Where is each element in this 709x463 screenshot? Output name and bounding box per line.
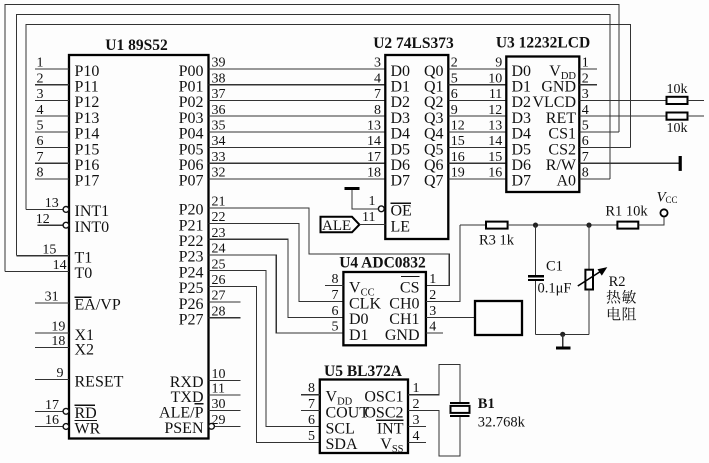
ADC U4 ADC0832 box: [343, 272, 426, 345]
wire bar stem to OE: [352, 190, 378, 209]
svg-text:P02: P02: [179, 94, 204, 111]
svg-text:ALE/P: ALE/P: [159, 404, 204, 421]
svg-text:INT1: INT1: [75, 203, 110, 220]
svg-text:P06: P06: [179, 157, 204, 174]
wire PSEN pin 29 stub: [215, 425, 241, 427]
svg-text:D6: D6: [391, 157, 411, 174]
wire U5 VDD pin8 stub: [301, 394, 320, 396]
svg-text:C1: C1: [546, 258, 563, 274]
svg-text:33: 33: [212, 150, 226, 165]
wire data bus P03 from U1 to U2: [209, 115, 386, 117]
wire data bus P06 from U1 to U2: [209, 162, 386, 164]
svg-text:11: 11: [212, 382, 225, 397]
svg-text:LE: LE: [391, 218, 411, 235]
overline on CS: [401, 275, 420, 277]
svg-text:8: 8: [308, 381, 315, 396]
svg-text:D0: D0: [349, 311, 369, 328]
svg-text:P15: P15: [75, 141, 100, 158]
wire ALE flag to LE pin 11: [359, 224, 385, 226]
svg-text:RET: RET: [546, 110, 576, 127]
wire CS1 pin5 stub to loop: [579, 131, 619, 133]
crystal B1: [450, 402, 470, 404]
wire U1 pin 2 P11 stub: [35, 84, 69, 86]
capacitor C1: [535, 225, 537, 275]
svg-text:19: 19: [451, 166, 465, 181]
svg-text:P05: P05: [179, 141, 204, 158]
svg-text:3: 3: [429, 304, 436, 319]
pin 17 bubble: [63, 408, 69, 414]
wire U1 pin 1 P10 stub: [35, 68, 69, 70]
svg-text:WR: WR: [75, 420, 101, 437]
svg-text:A0: A0: [556, 173, 576, 190]
svg-text:4: 4: [37, 103, 44, 118]
wire GND pin4 stub: [426, 332, 443, 334]
svg-text:R/W: R/W: [546, 157, 577, 174]
svg-text:P21: P21: [179, 217, 204, 234]
wire OSC2 to crystal bottom: [408, 411, 460, 457]
svg-text:3: 3: [37, 87, 44, 102]
svg-text:10: 10: [488, 71, 502, 86]
svg-text:15: 15: [42, 242, 56, 257]
svg-text:VLCD: VLCD: [532, 94, 576, 111]
svg-text:D3: D3: [391, 110, 411, 127]
svg-text:P20: P20: [179, 202, 204, 219]
svg-text:9: 9: [57, 366, 64, 381]
svg-text:8: 8: [37, 166, 44, 181]
svg-text:18: 18: [51, 334, 65, 349]
svg-text:R3 1k: R3 1k: [479, 233, 515, 249]
svg-text:P24: P24: [179, 264, 204, 281]
wire R/W pin7 to terminator: [579, 162, 679, 164]
svg-text:D7: D7: [391, 173, 411, 190]
wire U1 pin 5 P14 stub: [35, 131, 69, 133]
svg-text:P12: P12: [75, 94, 100, 111]
svg-text:GND: GND: [541, 79, 576, 96]
svg-text:19: 19: [51, 320, 65, 335]
wire T0 pin 14: [5, 270, 69, 272]
svg-text:13: 13: [367, 119, 381, 134]
svg-text:Q2: Q2: [424, 94, 444, 111]
wire INT0 pin 12 stub: [38, 224, 64, 226]
svg-text:CH0: CH0: [389, 295, 419, 312]
wire RD pin 17 stub: [35, 410, 63, 412]
svg-text:17: 17: [45, 398, 59, 413]
wire RXD pin 10 stub: [209, 379, 241, 381]
wire INT pin3 stub: [408, 426, 426, 428]
svg-text:10k: 10k: [667, 82, 688, 97]
svg-text:15: 15: [488, 150, 502, 165]
wire R3 to R1: [508, 224, 618, 226]
svg-text:35: 35: [212, 119, 226, 134]
svg-text:P04: P04: [179, 126, 204, 143]
wire U1 pin 3 P12 stub: [35, 99, 69, 101]
wire OSC1 to crystal top: [408, 365, 460, 403]
svg-text:D0: D0: [391, 63, 411, 80]
svg-text:4: 4: [413, 429, 420, 444]
svg-text:12: 12: [488, 103, 502, 118]
svg-text:P11: P11: [75, 79, 99, 96]
svg-text:4: 4: [429, 320, 436, 335]
svg-text:2: 2: [37, 71, 44, 86]
svg-text:30: 30: [212, 397, 226, 412]
svg-text:P00: P00: [179, 63, 204, 80]
wire ground rail: [536, 333, 590, 335]
wire CS2 pin6 stub to loop: [579, 147, 630, 149]
svg-text:CS1: CS1: [548, 126, 576, 143]
svg-text:P26: P26: [179, 296, 204, 313]
svg-text:D2: D2: [512, 94, 532, 111]
wire X2 pin 18 stub: [35, 347, 69, 349]
wire Q7 from U2 to U3: [448, 178, 506, 180]
wire Q0 from U2 to U3: [448, 68, 506, 70]
wire data bus P02 from U1 to U2: [209, 99, 386, 101]
wire CH0 pin2 to R3 node: [426, 225, 460, 301]
svg-text:P14: P14: [75, 126, 100, 143]
wire VDD pin1 stub: [579, 68, 597, 70]
wire CH1 pin3 to sensor box: [426, 316, 475, 318]
PSEN pin 29 bubble: [209, 423, 215, 429]
svg-text:EA/VP: EA/VP: [75, 297, 121, 314]
svg-text:14: 14: [53, 258, 67, 273]
svg-text:2: 2: [451, 56, 458, 71]
wire P24 to U5 SCL: [209, 271, 320, 427]
svg-text:U4 ADC0832: U4 ADC0832: [339, 255, 426, 272]
svg-text:ALE: ALE: [322, 218, 351, 234]
wire Q4 from U2 to U3: [448, 131, 506, 133]
wire P23 to U4 D1: [209, 255, 344, 333]
svg-text:P17: P17: [75, 173, 100, 190]
svg-text:T0: T0: [75, 265, 93, 282]
svg-text:38: 38: [212, 71, 226, 86]
svg-text:2: 2: [429, 288, 436, 303]
wire EA/VP pin 31 stub: [35, 302, 69, 304]
svg-text:2: 2: [413, 397, 420, 412]
svg-text:CLK: CLK: [349, 295, 381, 312]
wire Q6 from U2 to U3: [448, 162, 506, 164]
svg-text:P27: P27: [179, 312, 204, 329]
svg-text:D4: D4: [512, 126, 532, 143]
wire P20 to U4 CS: [209, 208, 450, 286]
wire data bus P07 from U1 to U2: [209, 178, 386, 180]
svg-text:39: 39: [212, 56, 226, 71]
svg-text:13: 13: [45, 196, 59, 211]
svg-text:CC: CC: [666, 195, 678, 205]
IC U1 89S52 MCU box: [69, 55, 209, 439]
svg-text:D5: D5: [391, 141, 411, 158]
ground symbol: [562, 334, 564, 347]
svg-text:1: 1: [429, 272, 436, 287]
wire loop T1 to U3 A0: [17, 14, 611, 255]
svg-text:Q0: Q0: [424, 63, 444, 80]
svg-text:Q5: Q5: [424, 141, 444, 158]
resistor R1 10k: [617, 222, 638, 229]
svg-text:11: 11: [362, 210, 375, 225]
label thermistor chinese 1: [607, 290, 621, 304]
svg-text:31: 31: [45, 290, 59, 305]
svg-text:6: 6: [37, 134, 44, 149]
svg-text:OSC1: OSC1: [364, 389, 403, 406]
wire data bus P05 from U1 to U2: [209, 147, 386, 149]
svg-text:32: 32: [212, 166, 226, 181]
sensor block box: [475, 301, 522, 335]
svg-text:U1 89S52: U1 89S52: [105, 37, 168, 54]
svg-text:D4: D4: [391, 126, 411, 143]
wire data bus P00 from U1 to U2: [209, 68, 386, 70]
svg-text:COUT: COUT: [326, 404, 370, 421]
wire Q2 from U2 to U3: [448, 99, 506, 101]
svg-text:16: 16: [488, 166, 502, 181]
svg-text:10k: 10k: [667, 121, 688, 136]
thermistor arrow: [578, 270, 604, 287]
wire P27 stub: [209, 317, 241, 319]
svg-text:9: 9: [495, 56, 502, 71]
svg-text:D1: D1: [512, 79, 532, 96]
svg-text:5: 5: [451, 71, 458, 86]
svg-text:28: 28: [212, 304, 226, 319]
svg-text:U2 74LS373: U2 74LS373: [373, 35, 454, 52]
svg-text:SDA: SDA: [326, 436, 358, 453]
svg-text:RESET: RESET: [75, 373, 124, 390]
wire node rail R3 to Vcc: [460, 224, 486, 226]
wire RET pin4 to 10k resistor: [579, 115, 666, 117]
logic-low bar above OE: [345, 187, 360, 190]
svg-text:17: 17: [367, 150, 381, 165]
svg-text:10: 10: [212, 367, 226, 382]
svg-text:CS2: CS2: [548, 141, 576, 158]
svg-text:P13: P13: [75, 110, 100, 127]
wire VSS pin4 stub: [408, 441, 426, 443]
svg-text:0.1μF: 0.1μF: [538, 280, 572, 296]
svg-text:D3: D3: [512, 110, 532, 127]
svg-text:32.768k: 32.768k: [478, 414, 526, 430]
wire ALE/P pin 30 stub: [209, 410, 241, 412]
wire WR pin 16 stub: [35, 426, 63, 428]
wire loop INT1 to U3 CS2: [26, 25, 630, 210]
svg-text:P03: P03: [179, 110, 204, 127]
svg-text:18: 18: [367, 166, 381, 181]
pin 13 bubble: [63, 207, 69, 213]
wire U1 pin 8 P17 stub: [35, 178, 69, 180]
svg-text:P16: P16: [75, 157, 100, 174]
svg-text:6: 6: [332, 304, 339, 319]
pin 16 bubble: [63, 424, 69, 430]
wire loop T0 to U3 CS1 (outer): [5, 5, 619, 272]
svg-text:P01: P01: [179, 79, 204, 96]
svg-text:INT: INT: [377, 420, 404, 437]
svg-text:1: 1: [413, 381, 420, 396]
svg-text:Q1: Q1: [424, 79, 444, 96]
net flag ALE: [321, 217, 360, 233]
wire U1 pin 4 P13 stub: [35, 115, 69, 117]
wire R1 to Vcc terminal: [638, 216, 664, 225]
svg-text:U3 12232LCD: U3 12232LCD: [496, 35, 590, 52]
junction node R2 top: [586, 223, 591, 228]
svg-text:3: 3: [374, 56, 381, 71]
wire U1 pin 6 P15 stub: [35, 147, 69, 149]
wire TXD pin 11 stub: [209, 394, 241, 396]
wire P25 to U5 SDA: [209, 286, 320, 442]
svg-text:5: 5: [308, 429, 315, 444]
svg-text:14: 14: [367, 134, 381, 149]
svg-text:Q4: Q4: [424, 126, 444, 143]
wire A0 pin8 stub to loop: [579, 178, 610, 180]
svg-text:37: 37: [212, 87, 226, 102]
svg-text:D5: D5: [512, 141, 532, 158]
svg-text:16: 16: [45, 413, 59, 428]
svg-text:4: 4: [374, 71, 381, 86]
wire T1 pin 15: [17, 255, 70, 257]
svg-text:GND: GND: [385, 327, 420, 344]
svg-text:P10: P10: [75, 63, 100, 80]
svg-text:5: 5: [332, 320, 339, 335]
pin 12 bubble: [63, 222, 69, 228]
svg-text:12: 12: [36, 212, 50, 227]
svg-text:15: 15: [451, 134, 465, 149]
wire U4 VCC pin8 stub: [325, 285, 343, 287]
wire U1 pin 7 P16 stub: [35, 162, 69, 164]
svg-text:P22: P22: [179, 233, 204, 250]
wire Q1 from U2 to U3: [448, 84, 506, 86]
resistor 10k lower: [667, 113, 688, 120]
wire GND pin2 stub: [579, 84, 597, 86]
Vcc terminal circle: [660, 209, 667, 216]
svg-text:Q3: Q3: [424, 110, 444, 127]
svg-text:CH1: CH1: [389, 311, 419, 328]
svg-text:D2: D2: [391, 94, 411, 111]
svg-text:D1: D1: [349, 327, 369, 344]
svg-text:8: 8: [374, 103, 381, 118]
svg-text:12: 12: [451, 119, 465, 134]
svg-text:7: 7: [332, 288, 339, 303]
latch U2 74LS373 box: [385, 55, 448, 239]
svg-text:6: 6: [308, 413, 315, 428]
svg-text:5: 5: [37, 119, 44, 134]
svg-text:1: 1: [37, 56, 44, 71]
svg-text:PSEN: PSEN: [164, 420, 204, 437]
svg-text:14: 14: [488, 134, 502, 149]
wire X1 pin 19 stub: [35, 332, 69, 334]
svg-text:U5 BL372A: U5 BL372A: [324, 363, 403, 380]
svg-text:7: 7: [308, 397, 315, 412]
svg-text:P07: P07: [179, 173, 204, 190]
svg-text:D7: D7: [512, 173, 532, 190]
wire COUT pin7 stub: [301, 410, 320, 412]
wire after upper 10k: [688, 99, 705, 101]
svg-text:13: 13: [488, 119, 502, 134]
svg-text:R2: R2: [609, 274, 626, 290]
svg-text:OSC2: OSC2: [364, 404, 403, 421]
wire Q3 from U2 to U3: [448, 115, 506, 117]
wire INT1 pin 13 to left loop: [26, 208, 63, 210]
svg-text:36: 36: [212, 103, 226, 118]
wire P22 to U4 D0: [209, 239, 344, 317]
svg-text:34: 34: [212, 134, 226, 149]
junction node C1 top: [533, 223, 538, 228]
resistor 10k upper: [667, 97, 688, 104]
svg-text:P23: P23: [179, 249, 204, 266]
overline on P of ALE/P: [195, 403, 204, 405]
overline on INT: [376, 419, 404, 421]
wire after lower 10k: [688, 115, 705, 117]
svg-text:CS: CS: [400, 279, 420, 296]
svg-text:X2: X2: [75, 341, 95, 358]
svg-text:SCL: SCL: [326, 420, 355, 437]
svg-text:9: 9: [451, 103, 458, 118]
svg-text:7: 7: [374, 87, 381, 102]
svg-text:OE: OE: [391, 203, 412, 220]
wire P26 stub: [209, 301, 241, 303]
svg-text:7: 7: [37, 150, 44, 165]
wire Q5 from U2 to U3: [448, 147, 506, 149]
thermistor R2: [588, 225, 590, 270]
wire RESET pin 9 stub: [35, 379, 69, 381]
svg-text:INT0: INT0: [75, 219, 110, 236]
svg-text:6: 6: [451, 87, 458, 102]
RTC U5 BL372A box: [320, 380, 408, 454]
wire data bus P04 from U1 to U2: [209, 131, 386, 133]
svg-text:R1 10k: R1 10k: [605, 203, 648, 219]
svg-text:16: 16: [451, 150, 465, 165]
svg-text:P25: P25: [179, 280, 204, 297]
svg-text:Q6: Q6: [424, 157, 444, 174]
svg-text:1: 1: [369, 194, 376, 209]
LCD module U3 12232LCD box: [506, 57, 579, 193]
resistor R3 1k: [486, 222, 508, 229]
wire P21 to U4 CLK: [209, 224, 344, 302]
svg-text:11: 11: [489, 87, 502, 102]
junction node ground: [560, 332, 565, 337]
svg-text:B1: B1: [478, 396, 495, 412]
svg-text:8: 8: [332, 272, 339, 287]
svg-text:25: 25: [212, 257, 226, 272]
OE pin bubble: [378, 206, 384, 212]
label thermistor chinese 2: [608, 307, 621, 320]
wire VLCD pin3 to 10k resistor: [579, 99, 666, 101]
terminator bar on R/W: [679, 156, 682, 171]
svg-text:D0: D0: [512, 63, 532, 80]
svg-text:D1: D1: [391, 79, 411, 96]
svg-text:Q7: Q7: [424, 173, 444, 190]
svg-text:3: 3: [413, 413, 420, 428]
svg-text:D6: D6: [512, 157, 532, 174]
svg-text:T1: T1: [75, 250, 93, 267]
wire data bus P01 from U1 to U2: [209, 84, 386, 86]
